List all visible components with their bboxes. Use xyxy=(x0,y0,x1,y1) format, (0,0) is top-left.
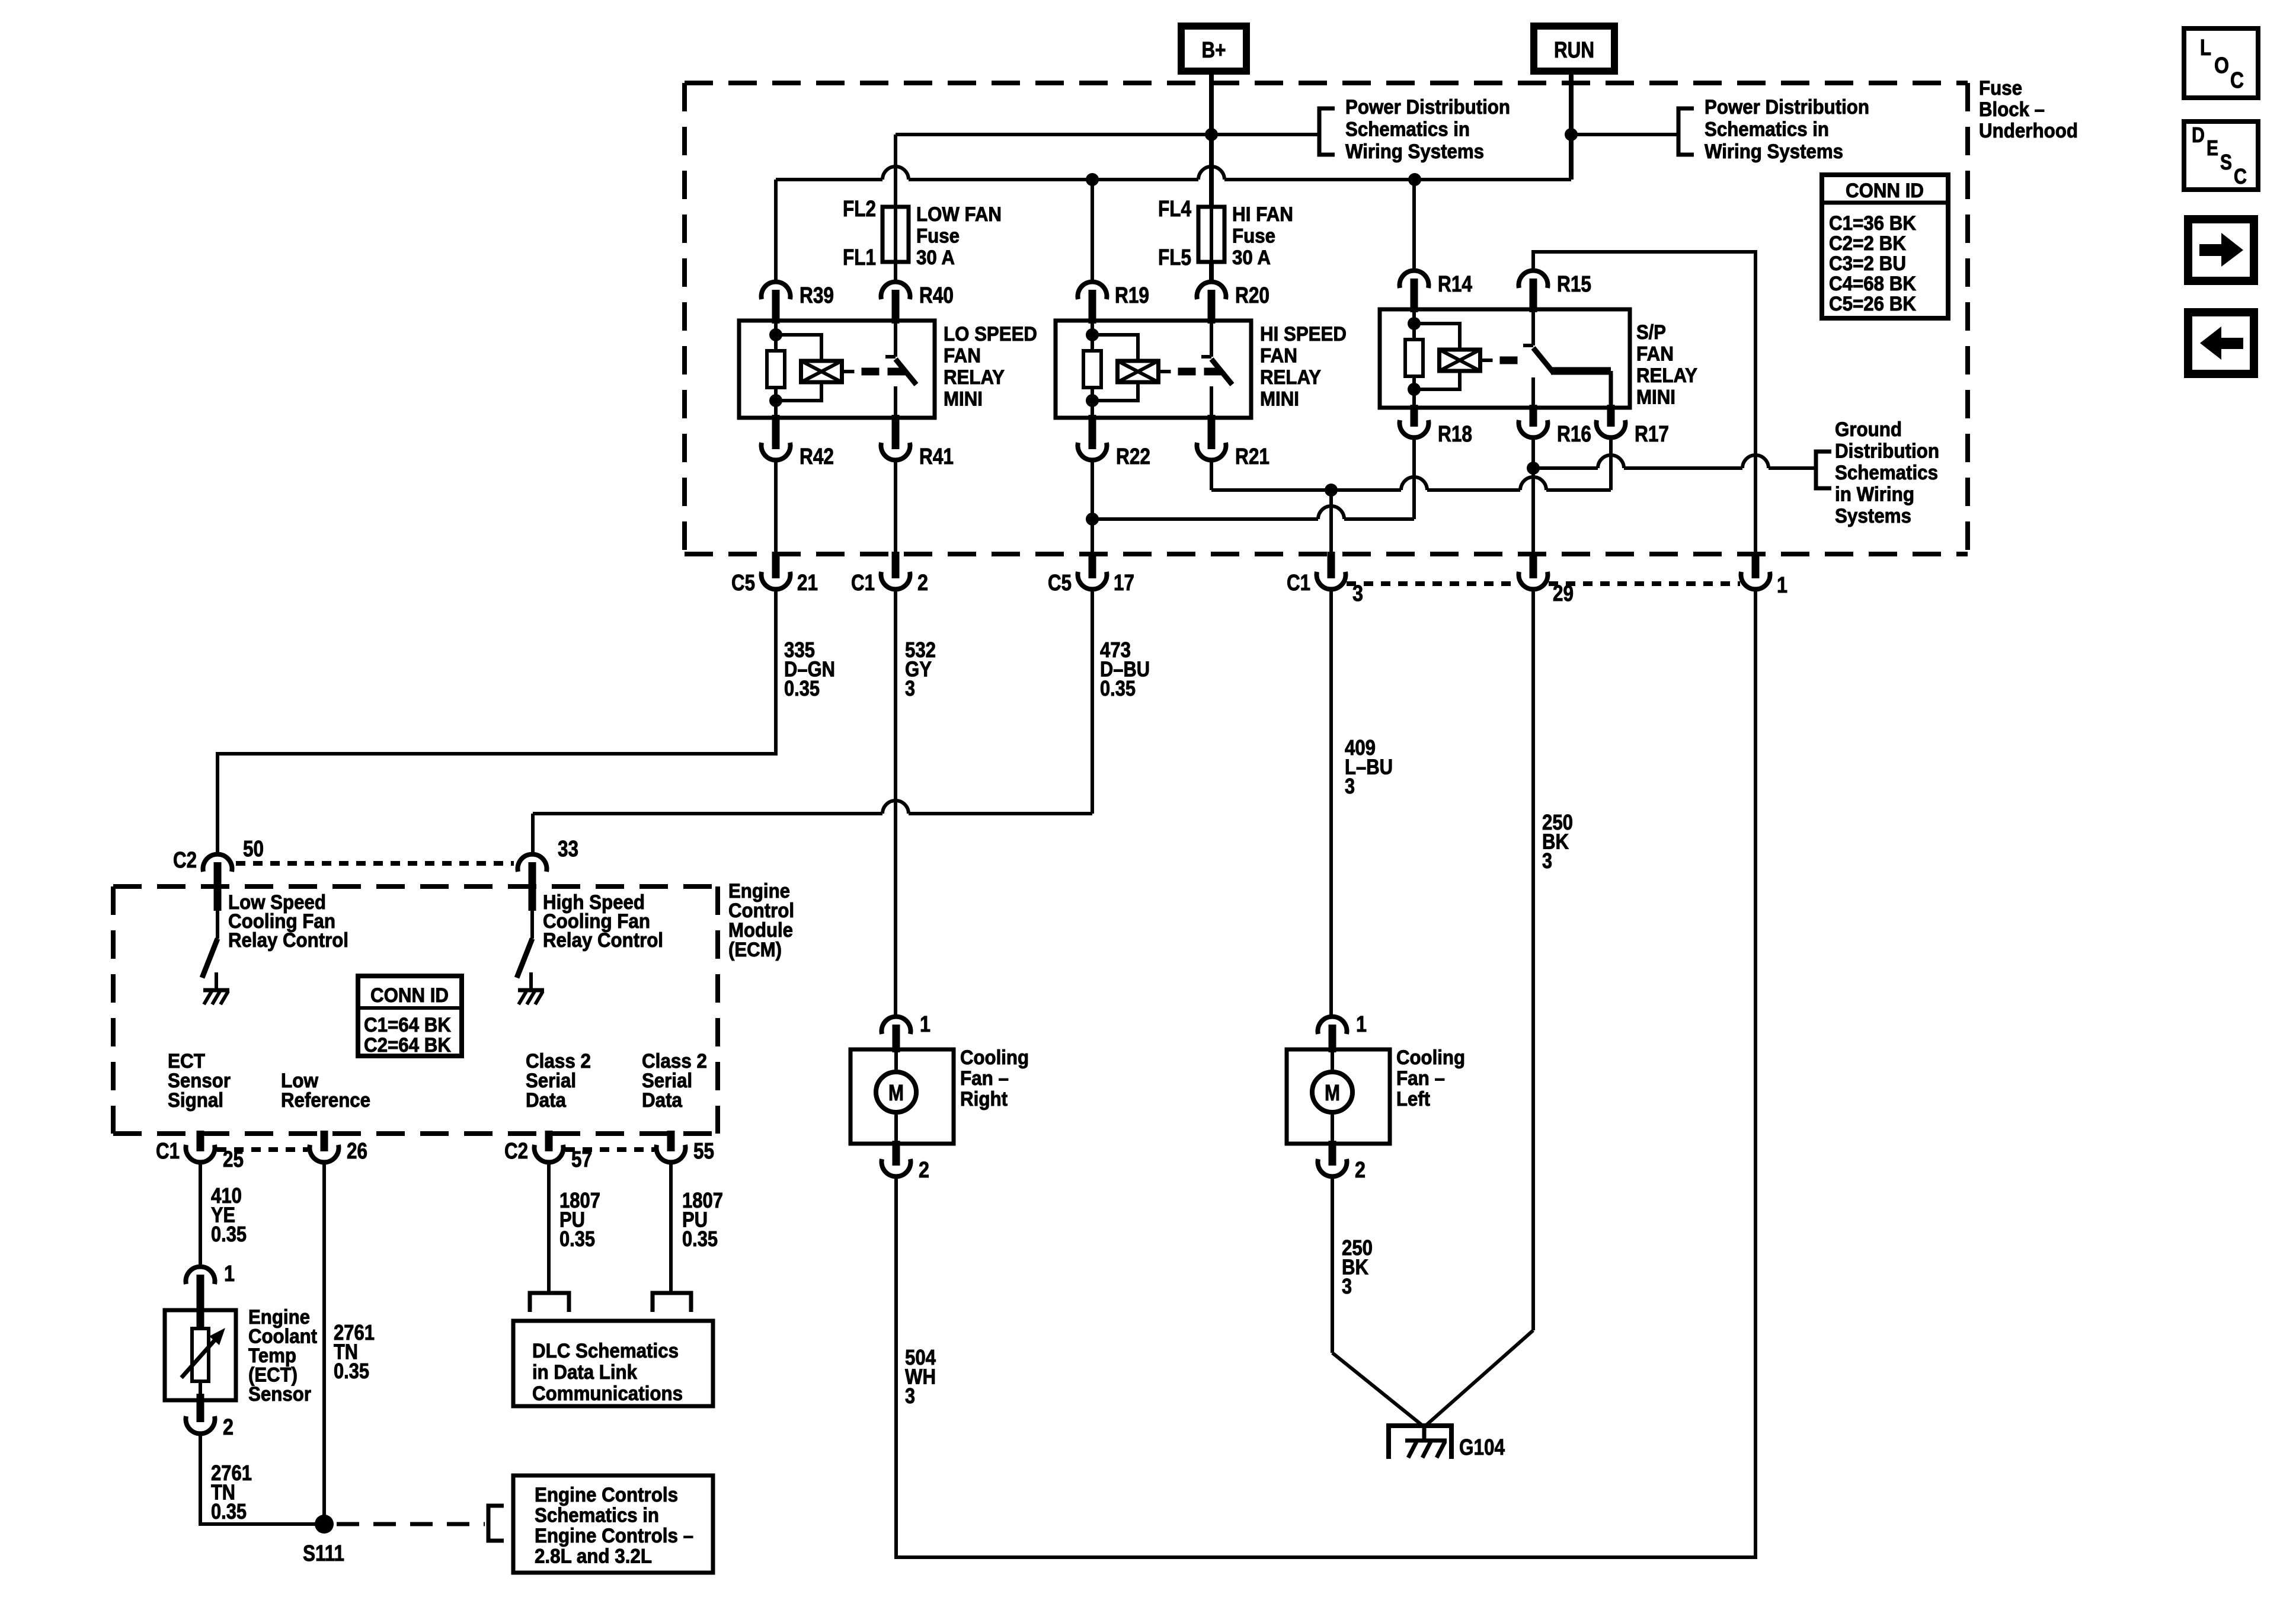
svg-text:R16: R16 xyxy=(1557,422,1591,447)
svg-text:L: L xyxy=(2200,36,2211,60)
svg-text:Schematics: Schematics xyxy=(1835,462,1938,484)
svg-text:in Data Link: in Data Link xyxy=(532,1361,637,1384)
svg-text:Power Distribution: Power Distribution xyxy=(1345,96,1510,119)
svg-text:Wiring Systems: Wiring Systems xyxy=(1345,140,1484,163)
svg-text:55: 55 xyxy=(693,1139,714,1164)
svg-text:FL1: FL1 xyxy=(843,245,876,270)
svg-text:30 A: 30 A xyxy=(1232,247,1271,269)
svg-text:Power Distribution: Power Distribution xyxy=(1705,96,1869,119)
svg-text:0.35: 0.35 xyxy=(682,1227,718,1251)
svg-text:M: M xyxy=(888,1081,904,1106)
svg-text:2: 2 xyxy=(917,571,928,596)
svg-text:FL2: FL2 xyxy=(843,197,876,222)
svg-text:M: M xyxy=(1325,1081,1340,1106)
svg-text:S: S xyxy=(2220,150,2232,174)
svg-text:17: 17 xyxy=(1114,571,1134,596)
svg-text:26: 26 xyxy=(347,1139,367,1164)
svg-text:C1=36 BK: C1=36 BK xyxy=(1829,212,1916,235)
svg-text:Engine Controls –: Engine Controls – xyxy=(535,1525,693,1547)
svg-text:C1=64 BK: C1=64 BK xyxy=(364,1014,451,1036)
svg-text:R14: R14 xyxy=(1438,272,1472,297)
svg-text:RELAY: RELAY xyxy=(944,366,1005,389)
svg-text:1: 1 xyxy=(224,1262,235,1286)
svg-text:Schematics in: Schematics in xyxy=(1345,119,1470,141)
svg-text:RELAY: RELAY xyxy=(1636,364,1697,387)
svg-text:Block –: Block – xyxy=(1979,98,2045,121)
svg-text:C3=2 BU: C3=2 BU xyxy=(1829,252,1906,275)
svg-text:MINI: MINI xyxy=(1260,388,1299,411)
svg-text:Sensor: Sensor xyxy=(248,1383,311,1406)
svg-text:Fuse: Fuse xyxy=(1232,225,1275,248)
svg-text:R40: R40 xyxy=(919,283,954,308)
svg-text:C4=68 BK: C4=68 BK xyxy=(1829,273,1916,295)
svg-text:Cooling: Cooling xyxy=(1396,1046,1465,1069)
svg-text:DLC Schematics: DLC Schematics xyxy=(532,1340,679,1362)
svg-text:1: 1 xyxy=(1777,573,1787,598)
svg-text:Fan –: Fan – xyxy=(960,1067,1009,1090)
svg-text:D: D xyxy=(2192,123,2205,147)
svg-text:C2=2 BK: C2=2 BK xyxy=(1829,232,1906,255)
svg-text:RUN: RUN xyxy=(1554,38,1594,63)
svg-text:2: 2 xyxy=(919,1158,929,1183)
svg-text:R21: R21 xyxy=(1235,444,1269,469)
svg-text:30 A: 30 A xyxy=(916,247,955,269)
svg-text:0.35: 0.35 xyxy=(784,676,820,700)
svg-text:R17: R17 xyxy=(1635,422,1669,447)
svg-text:Distribution: Distribution xyxy=(1835,440,1939,463)
svg-text:Data: Data xyxy=(526,1089,567,1112)
svg-text:R39: R39 xyxy=(800,283,834,308)
svg-text:LO SPEED: LO SPEED xyxy=(944,323,1037,345)
svg-text:R15: R15 xyxy=(1557,272,1591,297)
svg-text:S/P: S/P xyxy=(1636,321,1666,344)
svg-text:Fuse: Fuse xyxy=(916,225,960,248)
svg-text:C: C xyxy=(2230,68,2244,93)
svg-text:C1: C1 xyxy=(156,1139,180,1164)
svg-text:Systems: Systems xyxy=(1835,505,1911,527)
svg-text:CONN ID: CONN ID xyxy=(1846,180,1924,202)
svg-text:C1: C1 xyxy=(851,571,875,596)
svg-text:0.35: 0.35 xyxy=(334,1359,369,1383)
svg-text:C5: C5 xyxy=(1048,571,1072,596)
svg-text:R19: R19 xyxy=(1115,283,1149,308)
svg-text:C: C xyxy=(2234,164,2247,188)
svg-text:E: E xyxy=(2207,136,2218,160)
svg-text:Reference: Reference xyxy=(281,1089,370,1112)
svg-text:50: 50 xyxy=(243,837,264,862)
svg-text:R18: R18 xyxy=(1438,422,1472,447)
svg-text:0.35: 0.35 xyxy=(559,1227,595,1251)
svg-text:Communications: Communications xyxy=(532,1382,683,1405)
svg-text:(ECM): (ECM) xyxy=(728,939,782,961)
svg-text:CONN ID: CONN ID xyxy=(370,984,449,1007)
svg-text:C5=26 BK: C5=26 BK xyxy=(1829,293,1916,315)
svg-text:FAN: FAN xyxy=(944,345,981,367)
svg-text:Relay Control: Relay Control xyxy=(543,929,663,952)
svg-text:G104: G104 xyxy=(1459,1435,1505,1460)
svg-text:MINI: MINI xyxy=(1636,386,1675,409)
svg-text:2.8L and 3.2L: 2.8L and 3.2L xyxy=(535,1545,652,1568)
svg-text:33: 33 xyxy=(558,837,578,862)
svg-text:3: 3 xyxy=(1345,774,1355,798)
svg-text:0.35: 0.35 xyxy=(1100,676,1136,700)
svg-text:Fuse: Fuse xyxy=(1979,77,2022,100)
svg-text:FL5: FL5 xyxy=(1158,245,1191,270)
svg-text:FAN: FAN xyxy=(1636,343,1674,366)
svg-text:0.35: 0.35 xyxy=(211,1222,247,1246)
svg-text:FAN: FAN xyxy=(1260,345,1297,367)
svg-text:Fan –: Fan – xyxy=(1396,1067,1445,1090)
svg-text:HI SPEED: HI SPEED xyxy=(1260,323,1347,345)
svg-text:C5: C5 xyxy=(731,571,755,596)
svg-text:R42: R42 xyxy=(800,444,834,469)
svg-text:C1: C1 xyxy=(1287,571,1310,596)
svg-text:MINI: MINI xyxy=(944,388,983,411)
svg-text:B+: B+ xyxy=(1202,38,1226,63)
svg-text:3: 3 xyxy=(1342,1274,1352,1298)
svg-text:R20: R20 xyxy=(1235,283,1269,308)
svg-text:in Wiring: in Wiring xyxy=(1835,484,1914,506)
svg-text:S111: S111 xyxy=(303,1541,344,1566)
svg-text:R22: R22 xyxy=(1116,444,1150,469)
svg-text:Schematics in: Schematics in xyxy=(535,1505,659,1527)
svg-text:Relay Control: Relay Control xyxy=(228,929,348,952)
svg-text:2: 2 xyxy=(223,1415,234,1440)
svg-text:2: 2 xyxy=(1355,1158,1366,1183)
svg-text:21: 21 xyxy=(797,571,818,596)
svg-text:Signal: Signal xyxy=(168,1089,223,1112)
svg-text:3: 3 xyxy=(1542,849,1552,873)
svg-text:Data: Data xyxy=(642,1089,683,1112)
svg-text:Engine Controls: Engine Controls xyxy=(535,1484,678,1506)
svg-text:R41: R41 xyxy=(919,444,954,469)
svg-text:O: O xyxy=(2214,53,2229,78)
svg-text:Right: Right xyxy=(960,1088,1008,1110)
svg-text:Left: Left xyxy=(1396,1088,1430,1110)
svg-text:Cooling: Cooling xyxy=(960,1046,1029,1069)
svg-text:C2: C2 xyxy=(173,848,197,873)
svg-text:C2=64 BK: C2=64 BK xyxy=(364,1034,451,1057)
svg-text:C2: C2 xyxy=(504,1139,528,1164)
svg-text:HI FAN: HI FAN xyxy=(1232,203,1293,226)
svg-text:1: 1 xyxy=(1356,1012,1367,1037)
svg-text:Ground: Ground xyxy=(1835,418,1902,441)
svg-text:1: 1 xyxy=(920,1012,930,1037)
svg-text:Wiring Systems: Wiring Systems xyxy=(1705,140,1843,163)
svg-text:0.35: 0.35 xyxy=(211,1499,247,1523)
svg-text:3: 3 xyxy=(905,676,915,700)
svg-text:RELAY: RELAY xyxy=(1260,366,1321,389)
svg-text:Schematics in: Schematics in xyxy=(1705,119,1829,141)
svg-text:FL4: FL4 xyxy=(1158,197,1191,222)
svg-text:Underhood: Underhood xyxy=(1979,120,2078,142)
svg-text:3: 3 xyxy=(905,1384,915,1408)
svg-text:LOW FAN: LOW FAN xyxy=(916,203,1002,226)
